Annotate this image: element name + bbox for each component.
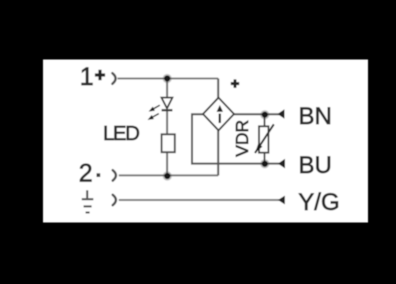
svg-text:LED: LED [103, 122, 139, 145]
svg-text:BU: BU [299, 152, 332, 179]
svg-text:1: 1 [80, 63, 94, 91]
svg-text:BN: BN [299, 103, 332, 130]
svg-text:Y/G: Y/G [298, 189, 339, 216]
svg-text:VDR: VDR [232, 120, 252, 157]
svg-text:2: 2 [79, 160, 93, 188]
